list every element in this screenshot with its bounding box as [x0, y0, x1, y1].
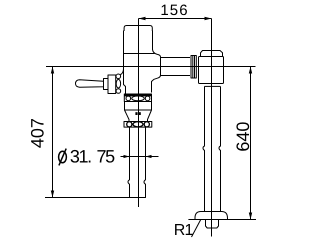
svg-text:R1: R1: [174, 222, 194, 239]
svg-text:156: 156: [160, 2, 188, 19]
svg-text:407: 407: [28, 118, 48, 148]
svg-text:640: 640: [233, 122, 253, 152]
